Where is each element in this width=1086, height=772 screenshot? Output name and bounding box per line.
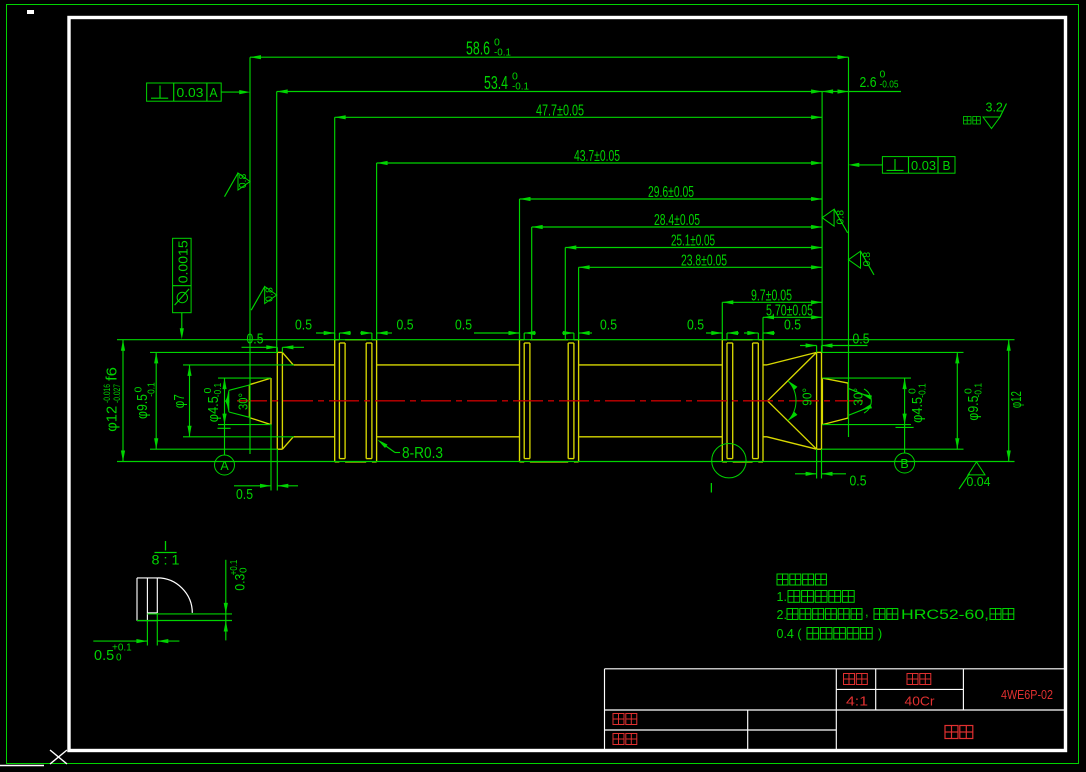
svg-text:8 : 1: 8 : 1	[152, 552, 180, 568]
detail dimension 0.3 +0.1/0	[225, 560, 227, 641]
dimension 28.4+-0.05	[532, 226, 822, 228]
roughness 0.8 on right collar face	[822, 209, 834, 226]
svg-text:8-R0.3: 8-R0.3	[402, 445, 443, 462]
svg-text:47.7±0.05: 47.7±0.05	[536, 102, 584, 119]
svg-text:0.3: 0.3	[233, 574, 248, 591]
dimension 0.5 right collar bottom	[795, 473, 817, 475]
svg-text:-0.05: -0.05	[880, 79, 899, 91]
feature control frame perpendicularity 0.03 B	[882, 157, 955, 174]
spool right cone mouth dia4.5	[821, 378, 823, 425]
svg-text:2.6: 2.6	[860, 74, 877, 91]
extension line left end 58.6	[249, 57, 251, 454]
svg-text:23.8±0.05: 23.8±0.05	[681, 252, 727, 269]
svg-text:0: 0	[116, 653, 122, 664]
shared bottom extension line dia12	[117, 461, 1015, 463]
svg-text:0.04: 0.04	[967, 475, 991, 489]
detail dimension 0.3 +0.1/0 extension lines	[147, 613, 232, 615]
angle 90deg right V-notch	[788, 381, 796, 421]
angle 30deg right cone	[848, 388, 867, 395]
angle 30deg left cone	[229, 385, 249, 390]
dimension 9.7+-0.05	[722, 301, 822, 303]
svg-text:): )	[878, 627, 882, 641]
svg-text:φ4.5: φ4.5	[205, 396, 222, 422]
roughness 0.8 on right end face	[849, 251, 861, 268]
dimension 0.5 land1 right ring	[360, 332, 372, 334]
detail circle I around land3 groove	[712, 444, 746, 478]
title text 审核 (checked by)	[613, 734, 624, 745]
svg-text:-0.1: -0.1	[512, 81, 529, 93]
spool waist 3 dia7	[763, 364, 767, 366]
svg-text:0.0015: 0.0015	[177, 240, 191, 283]
svg-text:0.03: 0.03	[177, 86, 204, 100]
spool right cone tip face	[847, 383, 849, 418]
spool left collar dia9.5 faces	[276, 352, 278, 449]
spool right conical flare to collar	[767, 352, 817, 365]
title text 材料 (material label)	[907, 674, 918, 685]
dimension dia9.5 0/-0.1 (left)	[155, 352, 157, 449]
svg-text:0.8: 0.8	[264, 287, 276, 302]
dimension 43.7+-0.05	[377, 162, 822, 164]
svg-text:4WE6P-02: 4WE6P-02	[1001, 687, 1053, 702]
extension line land3 right 5.70	[762, 317, 764, 339]
leader to datum surface (B frame)	[859, 164, 883, 166]
svg-text:,: ,	[865, 604, 869, 619]
extension line left collar 53.4	[276, 92, 278, 353]
runout 0.04 triangle marker	[968, 462, 985, 475]
svg-text:0.4 (: 0.4 (	[777, 627, 803, 641]
svg-text:0.8: 0.8	[861, 252, 873, 267]
svg-text:-0.027: -0.027	[112, 384, 123, 403]
svg-text:3.2: 3.2	[986, 101, 1003, 115]
dimension 0.5 land3 right ring	[744, 332, 758, 334]
dimension 25.1+-0.05	[565, 247, 822, 249]
svg-text:0.8: 0.8	[237, 174, 249, 189]
leader note 8-R0.3	[383, 444, 395, 453]
extension line right end 58.6 / 2.6	[848, 57, 850, 437]
datum B stem and tick	[896, 426, 914, 428]
roughness 0.8 on left collar face	[265, 287, 277, 304]
dimension 47.7+-0.05	[335, 116, 822, 118]
svg-text:25.1±0.05: 25.1±0.05	[671, 233, 715, 250]
svg-text:53.4: 53.4	[484, 73, 508, 93]
spool right cone slants 30deg	[822, 378, 848, 383]
dimension 0.5 right collar ring	[800, 345, 817, 347]
extension line land2 right 23.8	[578, 267, 580, 339]
feature control frame perpendicularity 0.03 A	[147, 83, 222, 101]
svg-text:0.5: 0.5	[850, 474, 867, 490]
svg-text:0.5: 0.5	[455, 318, 472, 334]
spool neck dia7	[293, 364, 334, 366]
svg-text:0.5: 0.5	[600, 318, 617, 334]
svg-text:B: B	[943, 159, 951, 173]
dimension 23.8+-0.05	[579, 266, 823, 268]
svg-text:30°: 30°	[236, 393, 251, 410]
svg-text:29.6±0.05: 29.6±0.05	[648, 184, 694, 201]
dimension 5.70+-0.05	[763, 316, 822, 318]
red centerline axis	[237, 400, 863, 402]
extension line land2 groove 28.4	[531, 227, 533, 340]
spool left collar chamfer to neck	[282, 352, 293, 365]
detail view white profile	[136, 578, 138, 621]
general roughness note 其余 3.2	[964, 117, 972, 125]
dimension 53.4 0/-0.1	[277, 91, 822, 93]
dimension dia12 -0.016/-0.027 f6 (left)	[122, 340, 124, 462]
datum A circle	[215, 455, 235, 475]
leader of cylindricity frame	[181, 313, 183, 329]
spool waist 2 dia7	[579, 364, 723, 366]
extension line right collar face	[821, 92, 823, 353]
spool land 1 dia12	[335, 339, 340, 341]
leader to datum surface (A frame)	[221, 91, 239, 93]
title text 比例 (scale label)	[844, 674, 855, 685]
svg-text:30°: 30°	[851, 388, 866, 406]
dimension dia4.5 0/-0.1 (left)	[224, 378, 226, 425]
svg-text:58.6: 58.6	[466, 39, 490, 59]
spool left cone mouth dia4.5	[270, 378, 272, 425]
dimension dia12 (right)	[1008, 340, 1010, 462]
dimension 0.5 left cone bottom	[234, 485, 271, 487]
dimension 0.5 land2 right ring	[562, 332, 574, 334]
crosshair X marker	[50, 750, 67, 764]
svg-text:0.5: 0.5	[295, 318, 312, 334]
svg-text:0.5: 0.5	[784, 318, 801, 334]
svg-text:B: B	[900, 457, 908, 471]
svg-text:0.5: 0.5	[397, 318, 414, 334]
svg-text:f6: f6	[104, 367, 121, 381]
svg-text:HRC52-60,: HRC52-60,	[901, 607, 989, 622]
roughness 0.8 on left end face	[238, 173, 250, 190]
svg-text:0: 0	[239, 567, 250, 573]
title text 阀芯 (part name: valve spool)	[945, 726, 958, 739]
extension line land2 groove 25.1	[564, 248, 566, 340]
spool right V-notch 90deg	[768, 352, 817, 400]
svg-text:-0.1: -0.1	[917, 383, 929, 398]
dimension dia9.5 0/-0.1 (right)	[956, 352, 958, 449]
dimension 58.6 0/-0.1	[250, 56, 849, 58]
small white mark top-left	[27, 10, 34, 14]
svg-text:φ12: φ12	[104, 406, 121, 432]
svg-text:1.: 1.	[777, 590, 787, 604]
dimension 0.5 land2 left ring	[474, 332, 520, 334]
dimension 2.6 0/-0.05	[822, 91, 901, 93]
title block grid	[605, 669, 1065, 750]
svg-text:4:1: 4:1	[846, 694, 868, 709]
svg-text:-0.1: -0.1	[973, 383, 985, 398]
svg-text:0.03: 0.03	[911, 159, 936, 173]
svg-text:0.5: 0.5	[236, 487, 253, 503]
dimension dia7 (left)	[189, 365, 191, 437]
spool right collar dia9.5	[816, 352, 818, 449]
bottom white tick line	[0, 765, 44, 767]
svg-text:φ4.5: φ4.5	[909, 397, 926, 423]
svg-text:-0.1: -0.1	[146, 382, 158, 397]
feature control frame cylindricity 0.0015	[173, 238, 192, 312]
detail dimension 0.5 +0.1/0	[93, 640, 147, 642]
svg-text:0: 0	[133, 387, 145, 393]
dimension 0.5 land3 left ring	[706, 332, 722, 334]
extension line land1 right 43.7	[376, 163, 378, 340]
spool waist 1 dia7	[377, 364, 520, 366]
dimension 29.6+-0.05	[520, 198, 823, 200]
dimension dia4.5 0/-0.1 (right)	[904, 378, 906, 425]
dimension 0.5 left collar ring	[242, 346, 278, 348]
svg-text:43.7±0.05: 43.7±0.05	[574, 148, 620, 165]
svg-text:40Cr: 40Cr	[905, 694, 936, 709]
svg-text:0.5: 0.5	[687, 318, 704, 334]
svg-text:28.4±0.05: 28.4±0.05	[654, 212, 700, 229]
spool land 2 dia12	[520, 339, 525, 341]
extension line land3 left 9.7	[721, 302, 723, 339]
svg-text:φ12: φ12	[1008, 391, 1025, 408]
spool land 3 dia12	[722, 339, 727, 341]
extension line land1 left 47.7	[334, 117, 336, 339]
svg-text:-0.1: -0.1	[494, 47, 511, 59]
svg-text:2.: 2.	[777, 608, 787, 622]
svg-text:90°: 90°	[800, 388, 815, 406]
datum A stem and tick	[218, 427, 231, 429]
svg-text:A: A	[210, 86, 219, 100]
svg-text:0.8: 0.8	[835, 210, 847, 225]
extension line land2 left 29.6	[519, 199, 521, 340]
svg-text:φ7: φ7	[171, 394, 188, 408]
svg-text:-0.1: -0.1	[212, 383, 224, 398]
datum B circle	[895, 453, 915, 473]
dimension 0.5 land1 left ring	[316, 332, 335, 334]
svg-text:I: I	[710, 480, 714, 495]
title text 制图 (drawn by)	[613, 714, 624, 725]
tech requirements heading 技术要求	[777, 574, 788, 585]
spool left cone tip face	[248, 385, 250, 418]
svg-text:φ9.5: φ9.5	[965, 396, 982, 421]
spool left cone slants 30deg	[249, 378, 271, 385]
